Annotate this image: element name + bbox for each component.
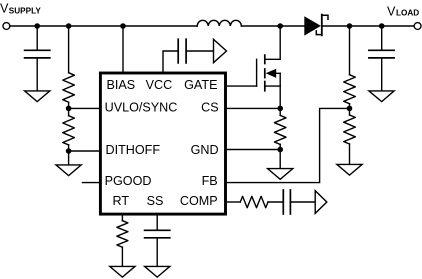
resistor R3 feedback top xyxy=(344,26,356,108)
svg-text:PGOOD: PGOOD xyxy=(105,174,152,188)
wire rail after inductor to diode anode xyxy=(241,25,304,27)
wire GATE pin to gate xyxy=(227,85,257,87)
ground sense resistor xyxy=(268,169,293,180)
label VLOAD xyxy=(387,4,419,18)
ground feedback divider xyxy=(337,164,362,175)
wire VCC pin riser xyxy=(163,51,177,72)
wire RCOMP to CCOMP xyxy=(268,201,282,203)
wire supply rail xyxy=(10,25,197,27)
gate bar xyxy=(256,59,258,86)
wire COMP pin xyxy=(227,201,240,203)
resistor R4 feedback bottom xyxy=(344,108,356,164)
transistor Q1 MOSFET xyxy=(227,26,280,108)
source stub xyxy=(265,86,280,108)
svg-text:COMP: COMP xyxy=(180,194,218,208)
wire sense ground lead xyxy=(279,150,281,169)
wire CS pin xyxy=(227,107,280,109)
node FB junction xyxy=(347,106,353,112)
node CS junction xyxy=(277,106,283,112)
node output divider junction xyxy=(347,23,353,29)
body arrow xyxy=(266,69,277,78)
svg-text:V: V xyxy=(387,4,396,18)
resistor RCS sense xyxy=(274,108,286,149)
diode D1 schottky xyxy=(304,15,328,36)
op-amp U1 box outline xyxy=(100,73,225,214)
channel drain segment xyxy=(264,55,266,63)
resistor RRT xyxy=(117,215,128,266)
label VSUPPLY xyxy=(0,2,41,16)
wire GND pin xyxy=(227,149,280,151)
svg-text:VCC: VCC xyxy=(146,78,173,92)
node BIAS junction xyxy=(120,23,126,29)
capacitor CIN xyxy=(25,26,50,91)
drain stub xyxy=(265,26,280,59)
svg-text:RT: RT xyxy=(113,194,130,208)
capacitor CCOMP xyxy=(283,190,315,214)
wire DITHOFF pin xyxy=(69,150,100,152)
resistor RCOMP xyxy=(240,196,268,207)
svg-text:DITHOFF: DITHOFF xyxy=(106,143,161,157)
terminal VLOAD xyxy=(414,23,421,30)
ground COMP network sideways xyxy=(315,191,327,214)
node GND junction xyxy=(277,147,283,153)
node switch node xyxy=(277,23,283,29)
terminal VSUPPLY xyxy=(3,23,10,30)
wire rail after diode to load terminal xyxy=(322,25,414,27)
wire FB pin trace xyxy=(227,108,350,182)
node DITHOFF junction xyxy=(66,148,72,154)
wire divider ground lead xyxy=(68,151,70,165)
capacitor CVCC xyxy=(178,39,213,63)
channel source segment xyxy=(264,82,266,91)
ground divider xyxy=(56,165,81,176)
svg-text:SS: SS xyxy=(147,194,164,208)
ground output cap xyxy=(369,91,394,102)
svg-text:GATE: GATE xyxy=(184,78,217,92)
svg-text:UVLO/SYNC: UVLO/SYNC xyxy=(105,101,178,115)
node input cap junction xyxy=(34,23,40,29)
capacitor COUT xyxy=(369,26,394,91)
svg-text:CS: CS xyxy=(201,101,219,115)
svg-text:GND: GND xyxy=(191,143,219,157)
svg-text:BIAS: BIAS xyxy=(107,78,136,92)
ground RT xyxy=(110,266,135,277)
svg-text:V: V xyxy=(0,2,9,16)
ground SS xyxy=(145,266,170,277)
ground VCC cap sideways xyxy=(214,39,227,62)
inductor L1 xyxy=(197,20,241,26)
node output cap junction xyxy=(379,23,385,29)
resistor R1 upper divider xyxy=(63,26,75,108)
node divider junction xyxy=(66,23,72,29)
body to source tie xyxy=(279,73,281,86)
channel body segment xyxy=(264,69,266,78)
svg-text:LOAD: LOAD xyxy=(396,8,419,17)
node UVLO junction xyxy=(66,106,72,112)
svg-text:FB: FB xyxy=(202,174,218,188)
resistor R2 lower divider xyxy=(63,108,75,151)
wire BIAS pin to rail xyxy=(122,26,124,72)
wire PGOOD pin xyxy=(83,182,100,184)
svg-text:SUPPLY: SUPPLY xyxy=(9,7,42,16)
capacitor CSS xyxy=(145,215,170,266)
ground input cap xyxy=(25,91,50,102)
wire UVLO/SYNC pin xyxy=(69,107,100,109)
